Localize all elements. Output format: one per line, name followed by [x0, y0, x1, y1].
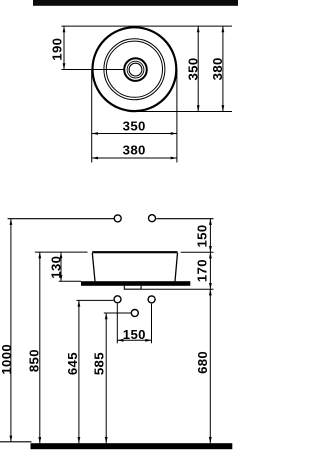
dimension 130 label — [48, 256, 63, 279]
svg-text:1000: 1000 — [0, 344, 14, 375]
supply hole left — [114, 296, 121, 303]
basin rim ring outer — [104, 39, 165, 100]
basin outer circle (380) top view — [92, 27, 176, 111]
countertop bar — [81, 281, 190, 286]
dimension 585 label — [92, 352, 107, 375]
wall faucet hole right — [149, 215, 156, 222]
dimension 1000 line — [10, 219, 13, 442]
svg-text:680: 680 — [195, 351, 210, 374]
extension line below hole right — [151, 304, 153, 344]
basin profile top edge — [92, 251, 177, 253]
extension line center horizontal — [62, 69, 124, 71]
extension line below hole left — [116, 304, 118, 344]
extension line right tangent vertical — [176, 69, 178, 162]
drain middle circle — [127, 61, 144, 78]
svg-text:130: 130 — [48, 256, 63, 279]
floor bar — [31, 443, 233, 449]
basin profile left side — [92, 253, 95, 281]
extension line 585 top — [104, 312, 131, 314]
dimension 170 right label — [195, 259, 210, 282]
svg-text:150: 150 — [195, 224, 210, 247]
dimension 350 bottom label — [123, 119, 146, 134]
extension line top tangent — [62, 25, 233, 27]
dimension 150 right label — [195, 224, 210, 247]
dimension 150 right line — [209, 219, 212, 253]
drain outlet hole — [131, 310, 138, 317]
dimension 850 label — [26, 349, 41, 372]
wall line right segment — [156, 218, 213, 220]
dimension 850 line — [38, 252, 41, 443]
dimension 380 right line — [222, 26, 225, 111]
floor thin line — [0, 441, 32, 443]
extension line left tangent vertical — [91, 69, 93, 162]
dimension 350 right line — [197, 26, 200, 111]
basin rim ring inner — [106, 41, 162, 97]
dimension 680 label — [195, 351, 210, 374]
dimension 350 bottom line — [92, 132, 177, 135]
basin profile right side — [175, 253, 178, 281]
wall faucet hole left — [114, 215, 121, 222]
drain inner circle — [129, 63, 142, 76]
dimension 380 bottom line — [92, 157, 177, 160]
dimension 380 bottom label — [123, 143, 146, 158]
dimension 150 holes label — [123, 327, 146, 342]
dimension 170 right line — [209, 252, 212, 289]
svg-text:350: 350 — [185, 57, 200, 80]
extension line 645 top — [76, 299, 113, 301]
drain trap notch — [124, 286, 141, 289]
extension line basin top right — [181, 251, 214, 253]
svg-text:380: 380 — [123, 143, 146, 158]
drain flange circle — [124, 58, 147, 81]
dimension 680 line — [209, 289, 212, 443]
dimension 1000 label — [0, 344, 14, 375]
wall line left segment — [8, 218, 114, 220]
svg-text:850: 850 — [26, 349, 41, 372]
dimension 645 line — [78, 300, 81, 443]
svg-text:645: 645 — [65, 352, 80, 375]
svg-text:170: 170 — [195, 259, 210, 282]
extension line bottom tangent — [133, 111, 232, 113]
dimension 350 right label — [185, 57, 200, 80]
svg-text:585: 585 — [92, 352, 107, 375]
dimension 150 holes line — [117, 339, 151, 342]
svg-text:350: 350 — [123, 119, 146, 134]
dimension 585 line — [105, 313, 108, 443]
dimension 190 line — [63, 26, 66, 69]
svg-text:150: 150 — [123, 327, 146, 342]
dimension 645 label — [65, 352, 80, 375]
extension line 130 bottom — [59, 280, 81, 282]
under-counter extension line — [141, 288, 213, 290]
supply hole right — [148, 296, 155, 303]
svg-text:380: 380 — [210, 57, 225, 80]
svg-text:190: 190 — [49, 38, 64, 61]
dimension 190 label — [49, 38, 64, 61]
dimension 130 line — [60, 252, 63, 281]
dimension 380 right label — [210, 57, 225, 80]
extension line basin top left — [35, 251, 88, 253]
top divider bar — [33, 0, 238, 6]
